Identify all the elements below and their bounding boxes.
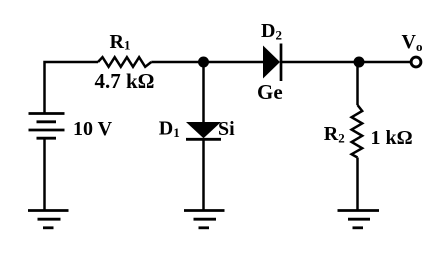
node junction dot 1 <box>198 57 209 68</box>
wire node 2 to output terminal <box>359 61 410 64</box>
ground (R2) <box>338 211 380 228</box>
diode D1 (Si, pointing down) <box>186 122 221 139</box>
wire top-left corner: left rail to R1 <box>45 62 99 114</box>
wire R2 down to ground <box>356 158 359 211</box>
ground (D1) <box>184 211 225 228</box>
svg-text:R2: R2 <box>324 123 345 146</box>
svg-text:Vo: Vo <box>402 31 423 54</box>
terminal Vo (open circle) <box>411 57 421 67</box>
svg-text:R1: R1 <box>110 31 131 53</box>
diode D2 (Ge, pointing right) <box>263 44 281 82</box>
wire node 2 down to R2 <box>356 62 359 105</box>
svg-text:1 kΩ: 1 kΩ <box>371 127 413 149</box>
svg-text:10 V: 10 V <box>73 118 113 140</box>
ground (battery) <box>28 211 69 228</box>
resistor R2 zigzag <box>352 105 363 158</box>
svg-text:4.7 kΩ: 4.7 kΩ <box>95 69 155 93</box>
svg-text:D1: D1 <box>159 117 180 140</box>
svg-text:D2: D2 <box>261 20 282 43</box>
wire battery negative down to ground <box>43 138 46 211</box>
wire D1 cathode down to ground <box>202 140 205 211</box>
battery 10 V plates <box>29 114 65 139</box>
wire D2 cathode to node 2 <box>281 61 359 64</box>
wire node 1 down to D1 <box>202 62 205 123</box>
svg-text:Si: Si <box>218 118 235 140</box>
svg-text:Ge: Ge <box>257 80 283 104</box>
wire R1 to node 1 <box>151 61 203 64</box>
node junction dot 2 <box>354 57 365 68</box>
resistor R1 zigzag <box>98 57 151 67</box>
wire node 1 to D2 anode <box>204 61 264 64</box>
